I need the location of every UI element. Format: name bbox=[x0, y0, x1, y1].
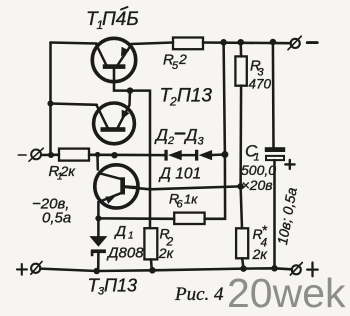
wire D3 to node bbox=[212, 153, 225, 156]
label D1 bbox=[106, 223, 144, 262]
svg-text:×20в: ×20в bbox=[242, 177, 273, 193]
node bottom / R2 bbox=[149, 267, 156, 274]
wire top-left from rail to T1 collector bbox=[51, 43, 97, 44]
svg-text:2к: 2к bbox=[252, 246, 269, 262]
svg-text:*: * bbox=[262, 222, 268, 238]
svg-text:П4Б: П4Б bbox=[102, 9, 139, 30]
resistor R2 bbox=[144, 228, 157, 259]
T3 collector diagonal bbox=[99, 173, 120, 179]
label T2 bbox=[160, 86, 213, 109]
diode D3 bbox=[195, 150, 212, 161]
wire between D2 D3 bbox=[182, 154, 195, 157]
label C1 bbox=[241, 142, 276, 194]
wire bottom rail bbox=[40, 268, 292, 271]
wire R1 to diode row bbox=[89, 154, 164, 157]
wire input terminal to R1 bbox=[41, 154, 59, 157]
resistor R6 bbox=[174, 213, 204, 224]
svg-text:10в; 0,5а: 10в; 0,5а bbox=[274, 186, 300, 246]
terminal output minus (top right) bbox=[288, 36, 317, 50]
label R5 value bbox=[163, 51, 187, 72]
node top wire / C1 bbox=[270, 39, 277, 46]
label input rating bbox=[32, 196, 71, 227]
wire R6 left bbox=[98, 217, 174, 220]
wire R6 right up to top rail bbox=[205, 42, 226, 219]
node bottom / zener bbox=[93, 268, 100, 275]
node rail/R1 bbox=[48, 152, 54, 158]
resistor R1 bbox=[59, 149, 89, 161]
transistor U T1 circle bbox=[92, 38, 135, 81]
node diode row / rail bbox=[221, 151, 228, 158]
resistor R3 bbox=[235, 56, 246, 85]
svg-text:2: 2 bbox=[167, 135, 174, 147]
svg-text:2к: 2к bbox=[60, 163, 77, 179]
wire R5 to minus terminal bbox=[203, 41, 291, 44]
svg-text:Д: Д bbox=[114, 223, 127, 240]
wire R3 top bbox=[239, 42, 242, 56]
T1 emitter diagonal bbox=[118, 44, 132, 65]
wire R4 bottom bbox=[242, 258, 243, 268]
svg-text:500,0: 500,0 bbox=[241, 162, 276, 178]
wire T3 emitter down to zener bbox=[97, 202, 100, 236]
C1 polarity plus bbox=[285, 160, 294, 169]
label R6 bbox=[169, 191, 198, 211]
label R4 bbox=[252, 222, 269, 262]
wire C1 top bbox=[272, 42, 275, 147]
wire left rail bbox=[49, 43, 52, 156]
svg-text:2: 2 bbox=[178, 51, 187, 67]
capacitor C1 plates bbox=[265, 147, 295, 169]
svg-text:1к: 1к bbox=[184, 192, 198, 207]
wire R2 bottom bbox=[150, 259, 153, 270]
diode D2 bbox=[164, 150, 181, 161]
T1 collector diagonal bbox=[97, 45, 107, 65]
wire T3 base to R3-R4 node bbox=[125, 186, 241, 189]
wire C1 bottom bbox=[273, 160, 276, 268]
label R3 bbox=[249, 58, 272, 92]
node T3 emitter / R6 bbox=[95, 215, 101, 221]
T2 collector diagonal bbox=[97, 106, 108, 127]
svg-text:2к: 2к bbox=[158, 245, 175, 261]
label D2-D3 bbox=[154, 126, 205, 148]
node bottom / C1 bbox=[271, 265, 278, 272]
svg-text:2: 2 bbox=[169, 95, 177, 109]
svg-text:Д808: Д808 bbox=[106, 245, 144, 262]
wire T3 collector up bbox=[96, 155, 99, 170]
T3 base bar bbox=[120, 177, 125, 194]
svg-text:Д: Д bbox=[154, 126, 168, 145]
svg-text:6: 6 bbox=[177, 199, 184, 211]
svg-text:1: 1 bbox=[128, 231, 134, 242]
svg-text:470: 470 bbox=[249, 77, 272, 92]
zener diode D1 bbox=[89, 236, 107, 256]
T3 emitter diagonal bbox=[99, 193, 120, 202]
terminal output plus (bottom right) bbox=[290, 263, 317, 277]
T2 base bar bbox=[101, 127, 126, 132]
svg-text:4: 4 bbox=[214, 284, 224, 305]
svg-text:3: 3 bbox=[198, 136, 205, 148]
label R1 bbox=[49, 163, 77, 183]
label R2 bbox=[158, 225, 175, 261]
terminal input minus (left middle) bbox=[18, 148, 43, 161]
resistor R5 bbox=[173, 38, 203, 50]
wire rail to T2 collector bbox=[51, 104, 97, 105]
svg-text:0,5а: 0,5а bbox=[42, 210, 71, 227]
resistor R4 bbox=[236, 228, 248, 258]
transistor U T2 circle bbox=[94, 103, 135, 144]
node bottom / R4 bbox=[240, 265, 247, 272]
transistor U T3 circle bbox=[95, 165, 138, 208]
T3 emitter arrow bbox=[105, 197, 115, 204]
svg-text:П13: П13 bbox=[177, 86, 212, 107]
node wire / T2 base bbox=[111, 152, 118, 159]
svg-text:П13: П13 bbox=[104, 276, 137, 296]
T2 emitter arrow bbox=[122, 110, 130, 120]
T3 base lead bbox=[125, 185, 138, 188]
wire T1 base down bbox=[114, 69, 150, 229]
svg-text:Рис.: Рис. bbox=[174, 284, 209, 305]
node top wire / R6 rail bbox=[220, 39, 227, 46]
terminal input plus (bottom left) bbox=[17, 262, 42, 275]
label T3 bbox=[88, 275, 138, 298]
T1 emitter arrow bbox=[121, 47, 129, 57]
svg-text:20wek: 20wek bbox=[227, 270, 346, 316]
node R1 wire / T3 collector bbox=[95, 152, 101, 158]
label T1 bbox=[86, 7, 139, 32]
wire T1 emitter to R5 bbox=[131, 43, 173, 45]
wire zener to bottom bbox=[97, 253, 100, 271]
node rail/T2 collector bbox=[47, 100, 53, 106]
node R3 / R4 / T3 base bbox=[237, 183, 244, 190]
svg-text:Д 101: Д 101 bbox=[158, 166, 201, 183]
node T1 base / T2 emitter bbox=[127, 87, 134, 94]
node top wire / R3 bbox=[237, 39, 244, 46]
svg-text:Д: Д bbox=[184, 126, 198, 145]
svg-text:5: 5 bbox=[172, 60, 179, 72]
wire R3 bottom to R4 bbox=[241, 86, 242, 229]
T1 base bar bbox=[103, 64, 126, 69]
T2 emitter diagonal bbox=[118, 91, 130, 128]
